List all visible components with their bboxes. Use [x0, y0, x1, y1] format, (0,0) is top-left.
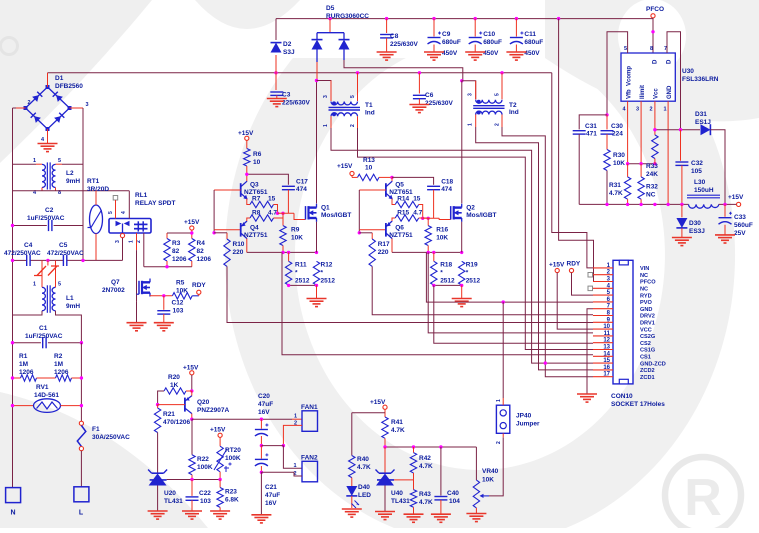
svg-text:N: N [10, 510, 15, 517]
svg-text:Q1: Q1 [321, 205, 330, 212]
terminal +15V r41 [383, 405, 387, 409]
node pin6 JP40 [502, 300, 505, 303]
svg-text:103: 103 [173, 308, 184, 315]
svg-text:F1: F1 [92, 426, 100, 433]
wire T1 p2 to CS route [358, 128, 594, 350]
svg-text:D30: D30 [689, 220, 701, 227]
svg-text:R4: R4 [197, 240, 206, 247]
svg-text:Ind: Ind [365, 110, 375, 117]
svg-text:2N7002: 2N7002 [102, 287, 125, 294]
svg-text:24K: 24K [646, 171, 658, 178]
node base [358, 230, 360, 233]
svg-text:C11: C11 [524, 31, 536, 38]
svg-text:D5: D5 [326, 5, 335, 12]
node on ZCD route [544, 361, 547, 364]
wire RT1 bottom [95, 234, 97, 261]
wire vcc rail [579, 203, 688, 205]
wire C4C5 row [13, 259, 27, 261]
svg-text:S3J: S3J [283, 49, 295, 56]
terminal +15V R6 [245, 136, 249, 140]
ground under C12 [154, 322, 174, 324]
wire main HV bus [48, 72, 552, 74]
wire gate [423, 217, 440, 219]
wire PFCO bus to pin3 [559, 19, 594, 282]
ground under C21 [251, 514, 271, 516]
wire Q7 source [149, 295, 151, 298]
wire U30 pin3 [640, 101, 642, 164]
resistor R21 [157, 405, 159, 408]
wire R16 to pin11 [428, 252, 593, 333]
ground under CON10 [577, 393, 597, 395]
pin stub T1 p1 [330, 116, 332, 128]
svg-text:D40: D40 [358, 484, 370, 491]
node switch2 [460, 79, 463, 82]
svg-text:ES1J: ES1J [695, 119, 711, 126]
led D40 [351, 478, 353, 486]
svg-text:+15V: +15V [184, 219, 200, 226]
wire pin7 to ground [587, 309, 593, 394]
ground under C6 [409, 104, 429, 106]
svg-text:U40: U40 [391, 490, 403, 497]
svg-text:1M: 1M [54, 361, 63, 368]
svg-text:10K: 10K [436, 235, 448, 242]
svg-text:TL431: TL431 [391, 498, 410, 505]
svg-text:25V: 25V [734, 230, 746, 237]
svg-text:U20: U20 [164, 490, 176, 497]
svg-text:4.7: 4.7 [413, 210, 422, 217]
wire right rail lower [80, 343, 82, 422]
svg-text:D: D [653, 59, 659, 64]
thermistor RT1 [90, 205, 103, 234]
svg-text:2: 2 [496, 441, 502, 444]
pin stub D1 right [70, 107, 84, 109]
wire R7 to gate node [274, 205, 278, 214]
resistor R17 [371, 233, 373, 239]
svg-text:450V: 450V [442, 50, 458, 57]
svg-text:Q6: Q6 [395, 225, 404, 232]
ground under shunt [307, 298, 327, 300]
svg-text:15: 15 [268, 196, 276, 203]
wire RT1 top [95, 191, 97, 205]
svg-text:PVO: PVO [640, 300, 652, 306]
pin stub L1 p1 [41, 260, 43, 287]
capacitor C21 [260, 446, 262, 459]
svg-text:2512: 2512 [321, 278, 336, 285]
svg-text:R2: R2 [54, 353, 63, 360]
capacitor C10 [474, 19, 476, 37]
svg-text:10K: 10K [291, 235, 303, 242]
wire R3R4 bottom [144, 266, 192, 268]
wire Q2 drain [461, 81, 463, 204]
svg-text:GND-ZCD: GND-ZCD [640, 361, 666, 367]
terminal N [6, 488, 21, 503]
wire +15V q20 [191, 375, 193, 391]
svg-text:47uF: 47uF [258, 401, 273, 408]
svg-text:R41: R41 [391, 419, 403, 426]
svg-text:1206: 1206 [172, 256, 187, 263]
svg-text:R15: R15 [397, 210, 409, 217]
choke L2 [42, 164, 45, 187]
ground under VR40 [466, 513, 486, 515]
svg-text:13: 13 [603, 345, 610, 351]
pin stub T2 p3 [475, 81, 477, 100]
svg-text:C32: C32 [691, 160, 703, 167]
pin stub L2 p8 [55, 188, 57, 191]
wire RL1 p4 [128, 191, 130, 219]
svg-text:4.7K: 4.7K [419, 463, 433, 470]
pin stub D1 top [47, 73, 49, 87]
svg-text:DRV2: DRV2 [640, 314, 655, 320]
svg-text:100K: 100K [197, 464, 213, 471]
capacitor C5 [62, 255, 64, 266]
wire R13 node [390, 176, 393, 179]
wire Q20 base [158, 404, 185, 406]
svg-text:T1: T1 [365, 102, 373, 109]
svg-text:FAN1: FAN1 [301, 404, 318, 411]
wire L1 bottom right [56, 311, 82, 343]
resistor R30 [604, 150, 610, 171]
svg-text:GND: GND [667, 85, 673, 99]
svg-text:680uF: 680uF [483, 39, 502, 46]
svg-text:9mH: 9mH [66, 178, 80, 185]
svg-text:1uF/250VAC: 1uF/250VAC [25, 333, 63, 340]
node C20 bottom [260, 444, 263, 447]
svg-text:220: 220 [233, 249, 244, 256]
svg-text:VIN: VIN [640, 266, 649, 272]
capacitor C33 [724, 204, 726, 216]
svg-text:1M: 1M [19, 361, 28, 368]
resistor R1 [13, 377, 21, 379]
svg-text:3: 3 [636, 107, 639, 113]
wire R8 to gate node [419, 217, 429, 219]
wire base bus [214, 189, 241, 191]
svg-text:R22: R22 [197, 456, 209, 463]
svg-text:1: 1 [33, 282, 36, 288]
resistor R42 [413, 447, 415, 453]
capacitor C8 [386, 19, 388, 33]
svg-text:C9: C9 [442, 31, 451, 38]
wire mosfet source [316, 222, 318, 253]
terminal L [74, 487, 89, 502]
svg-text:R: R [684, 469, 722, 527]
resistor R19 [459, 261, 465, 285]
svg-text:C17: C17 [296, 179, 308, 186]
svg-text:C18: C18 [441, 179, 453, 186]
svg-text:225/630V: 225/630V [390, 41, 418, 48]
svg-text:225/630V: 225/630V [282, 100, 310, 107]
svg-text:DRV1: DRV1 [640, 321, 655, 327]
ground under C40 [431, 513, 451, 515]
svg-text:D2: D2 [283, 41, 292, 48]
resistor R22 [191, 419, 193, 455]
svg-text:L: L [79, 510, 84, 517]
svg-text:PFCO: PFCO [640, 280, 656, 286]
svg-text:R9: R9 [291, 227, 300, 234]
svg-text:C20: C20 [258, 393, 270, 400]
svg-text:11: 11 [604, 331, 611, 337]
svg-text:82: 82 [172, 248, 180, 255]
svg-text:R19: R19 [466, 262, 478, 269]
wire JP40 drop [502, 302, 504, 398]
node R21 top [156, 403, 159, 406]
svg-text:C2: C2 [45, 207, 54, 214]
svg-text:1K: 1K [170, 382, 179, 389]
svg-text:PNZ2907A: PNZ2907A [197, 407, 229, 414]
svg-text:C40: C40 [447, 490, 459, 497]
transistor Q20 [184, 398, 186, 412]
svg-text:R40: R40 [357, 456, 369, 463]
svg-text:3: 3 [323, 95, 329, 98]
svg-text:15: 15 [413, 196, 421, 203]
wire RL1 p2 down [143, 233, 145, 267]
wire U30 pin5 vcomp [607, 32, 628, 115]
pin stubs CON10 [593, 267, 613, 269]
svg-text:Q20: Q20 [197, 399, 210, 406]
node R1R2 [11, 376, 14, 379]
wire vref row [385, 446, 476, 448]
node base [213, 230, 215, 233]
node switch1 [315, 79, 318, 82]
shunt reg U40 [384, 447, 386, 473]
transistor Q3 [240, 183, 242, 197]
wire U20 ground [157, 486, 159, 512]
svg-text:D: D [667, 59, 673, 64]
svg-text:103: 103 [200, 498, 211, 505]
svg-text:RL1: RL1 [135, 192, 148, 199]
svg-text:Vfb: Vfb [627, 89, 633, 99]
svg-text:10K: 10K [482, 477, 494, 484]
svg-text:R33: R33 [646, 163, 658, 170]
svg-text:1206: 1206 [197, 256, 212, 263]
svg-text:R32: R32 [646, 184, 658, 191]
wire L2 bottom rail [13, 190, 130, 192]
wire rail to L2 p5 [62, 163, 83, 165]
svg-text:30A/250VAC: 30A/250VAC [92, 434, 130, 441]
resistor R31 [627, 164, 629, 177]
capacitor C31 [579, 115, 607, 129]
svg-text:6.8K: 6.8K [225, 497, 239, 504]
capacitor C18 [427, 185, 440, 187]
svg-text:+15V: +15V [337, 163, 353, 170]
pin stub JP40 1 [502, 398, 504, 405]
capacitor C32 [680, 130, 682, 161]
svg-text:C12: C12 [172, 300, 184, 307]
svg-text:C22: C22 [199, 490, 211, 497]
svg-text:Q4: Q4 [250, 225, 259, 232]
wire D31 row [655, 129, 700, 131]
wire base bus [359, 189, 386, 191]
terminal +15V relay [190, 226, 194, 230]
svg-text:NZT751: NZT751 [244, 232, 268, 239]
ground under shunt [452, 298, 472, 300]
svg-text:1: 1 [33, 158, 36, 164]
svg-text:4.7K: 4.7K [391, 427, 405, 434]
svg-text:R1: R1 [19, 353, 28, 360]
svg-text:2512: 2512 [466, 278, 481, 285]
svg-text:1: 1 [323, 124, 329, 127]
svg-text:14: 14 [603, 351, 610, 357]
svg-text:FSL336LRN: FSL336LRN [682, 76, 719, 83]
wire RL1 p3 down [122, 238, 124, 261]
wire C20 to FAN2 [261, 445, 283, 447]
resistor R6 [246, 140, 248, 148]
potentiometer VR40 [475, 447, 477, 480]
resistor R7 [250, 201, 274, 207]
svg-text:C4: C4 [24, 242, 33, 249]
pin stub T2 p5 [501, 73, 503, 100]
resistor R18 [433, 252, 435, 261]
svg-text:1: 1 [664, 107, 667, 113]
resistor R32 [640, 164, 642, 177]
wire Q4 emitter to R8 [392, 218, 395, 221]
svg-text:C30: C30 [611, 123, 623, 130]
wire R8 to gate node [274, 213, 284, 218]
capacitor C40 [440, 447, 442, 496]
svg-text:JP40: JP40 [516, 413, 532, 420]
transistor Q7 mosfet [138, 281, 140, 294]
ground under D40 [342, 508, 362, 510]
wire mosfet source [461, 222, 463, 253]
pin stub L2 p4 [41, 188, 43, 191]
spark gap arrester [34, 266, 59, 276]
capacitor C4 [26, 255, 28, 266]
fan FAN2 [302, 461, 318, 482]
diode D5b [343, 33, 345, 40]
unconnected marker pin2 [588, 273, 593, 278]
fuse F1 [79, 421, 83, 425]
svg-text:4.7K: 4.7K [419, 499, 433, 506]
svg-text:4: 4 [121, 211, 127, 214]
wire D31 to rail [710, 130, 725, 205]
svg-text:+15V: +15V [210, 427, 226, 434]
shunt reg U20 [149, 474, 167, 486]
svg-text:R23: R23 [225, 489, 237, 496]
svg-text:R31: R31 [609, 182, 621, 189]
svg-text:ES3J: ES3J [689, 228, 705, 235]
svg-text:Q5: Q5 [395, 182, 404, 189]
svg-text:SOCKET 17Holes: SOCKET 17Holes [611, 401, 665, 408]
svg-text:2: 2 [495, 123, 501, 126]
wire C3 to ground [276, 95, 278, 98]
svg-text:L2: L2 [66, 170, 74, 177]
svg-text:RT20: RT20 [225, 447, 241, 454]
svg-text:12: 12 [603, 338, 610, 344]
transistor Q5 [385, 183, 387, 197]
wire C21 ground [260, 472, 262, 515]
terminal PFCO [651, 14, 655, 18]
wire source row [392, 251, 462, 253]
svg-text:C1: C1 [39, 325, 48, 332]
pin stub T1 p2 [357, 116, 359, 128]
transistor Q6 [385, 223, 387, 237]
svg-text:NC: NC [646, 192, 656, 199]
resistor R4 [191, 233, 193, 239]
svg-text:R11: R11 [295, 262, 307, 269]
svg-text:471: 471 [586, 131, 597, 138]
svg-text:4.7: 4.7 [268, 210, 277, 217]
svg-text:R14: R14 [397, 196, 409, 203]
diode D31 [701, 124, 711, 135]
svg-text:C6: C6 [425, 92, 434, 99]
resistor R12 [313, 261, 319, 285]
svg-text:R42: R42 [419, 455, 431, 462]
pin stub RL1 p5 [115, 200, 117, 219]
svg-text:RV1: RV1 [36, 384, 49, 391]
svg-text:15: 15 [603, 358, 610, 364]
ground under C33 [715, 234, 735, 236]
svg-text:ZCD2: ZCD2 [640, 368, 655, 374]
wire boost output bus [276, 18, 653, 20]
svg-text:L30: L30 [694, 179, 706, 186]
wire HV bus to VIN pin [552, 73, 593, 268]
svg-text:224: 224 [612, 131, 623, 138]
svg-text:CS1G: CS1G [640, 348, 655, 354]
resistor R40 [351, 413, 353, 456]
wire D5a anode to Q1 drain node [316, 62, 318, 81]
wire U30 pin2 [654, 101, 656, 130]
wire +15V to VCC pin [557, 273, 593, 330]
ground under R23 [210, 510, 230, 512]
diode D30 [681, 204, 683, 217]
svg-text:C5: C5 [59, 242, 68, 249]
diode D2 [271, 43, 282, 53]
svg-text:RDY: RDY [192, 282, 206, 289]
svg-text:3: 3 [86, 102, 89, 108]
svg-text:5: 5 [624, 46, 627, 52]
svg-text:R3: R3 [172, 240, 181, 247]
svg-text:82: 82 [197, 248, 205, 255]
svg-text:+15V: +15V [728, 194, 744, 201]
svg-text:5: 5 [58, 282, 61, 288]
svg-text:FAN2: FAN2 [301, 455, 318, 462]
svg-text:450V: 450V [483, 50, 499, 57]
transformer T2 [476, 100, 502, 103]
wire U40 ref [394, 479, 414, 481]
wire node2 to T2 pin3 [462, 81, 476, 100]
svg-text:RYD: RYD [640, 293, 652, 299]
svg-text:1: 1 [468, 123, 474, 126]
ground under C9 [424, 51, 444, 53]
svg-text:VCC: VCC [640, 327, 652, 333]
svg-text:CS2G: CS2G [640, 334, 655, 340]
resistor R8 [250, 215, 274, 221]
node driver top [245, 173, 248, 176]
svg-text:9mH: 9mH [66, 303, 80, 310]
svg-text:RURG3060CC: RURG3060CC [326, 13, 369, 20]
svg-text:100K: 100K [225, 455, 241, 462]
wire Vfb row [628, 163, 655, 165]
svg-text:Mos/IGBT: Mos/IGBT [466, 212, 496, 219]
pin stub JP40 2 [502, 433, 504, 437]
pin stub T1 p5 [357, 73, 359, 101]
svg-text:T2: T2 [509, 102, 517, 109]
wire RL1 p1 to Q7 [136, 233, 138, 250]
wire Q20 emitter [191, 391, 193, 396]
wire Q2 row to pin6 [426, 252, 593, 302]
wire rail to L2 p1 [13, 163, 37, 165]
wire C21 to FAN2 pin2 [261, 472, 302, 476]
svg-text:C21: C21 [265, 484, 277, 491]
capacitor C12 [163, 296, 165, 310]
svg-text:+15V: +15V [549, 262, 565, 269]
svg-text:C10: C10 [483, 31, 495, 38]
svg-text:560uF: 560uF [734, 222, 753, 229]
svg-text:680uF: 680uF [524, 39, 543, 46]
wire Q7 col to ground [136, 301, 138, 322]
svg-text:NC: NC [640, 287, 648, 293]
node C21 bottom [260, 471, 263, 474]
svg-text:CS2: CS2 [640, 341, 651, 347]
